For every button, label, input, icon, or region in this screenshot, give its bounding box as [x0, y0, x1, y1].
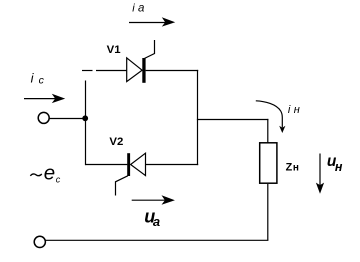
- wire V2 anode to right bus: [146, 164, 199, 166]
- thyristor V2: [116, 153, 146, 195]
- wire output branch down to load: [267, 119, 269, 143]
- svg-text:н: н: [335, 160, 343, 174]
- junction node: [82, 115, 88, 121]
- wire V1 anode: [96, 70, 127, 72]
- terminal input top: [38, 112, 49, 123]
- svg-text:c: c: [39, 74, 45, 86]
- wire V1 cathode to right bus: [146, 70, 199, 72]
- svg-text:i: i: [288, 104, 291, 116]
- wire output branch horizontal: [197, 119, 269, 121]
- current arrow ia: [129, 17, 175, 26]
- wire load bottom: [267, 184, 269, 240]
- voltage arrow uн: [316, 154, 324, 194]
- label ec source tilde: [30, 174, 42, 176]
- voltage arrow ua: [132, 195, 175, 204]
- wire right bus: [197, 70, 199, 165]
- svg-text:Z: Z: [286, 161, 293, 173]
- svg-text:н: н: [294, 104, 300, 116]
- thyristor V1: [127, 40, 155, 83]
- wire V1 anode stub: [82, 70, 93, 72]
- svg-text:a: a: [153, 214, 160, 229]
- current arrow ic: [24, 94, 65, 103]
- load Zн: [260, 143, 277, 183]
- svg-text:c: c: [56, 175, 61, 185]
- svg-text:V2: V2: [109, 136, 123, 148]
- svg-text:a: a: [138, 3, 144, 15]
- wire left bus: [85, 81, 87, 166]
- svg-text:i: i: [132, 3, 135, 15]
- current arrow iн curved: [256, 101, 286, 133]
- terminal input bottom: [34, 236, 45, 247]
- wire bottom return: [46, 239, 269, 241]
- wire V2 cathode side left: [85, 164, 127, 166]
- wire input to junction: [50, 118, 86, 120]
- svg-text:н: н: [293, 162, 299, 173]
- svg-text:i: i: [31, 70, 35, 85]
- svg-text:e: e: [44, 161, 55, 184]
- svg-text:V1: V1: [107, 44, 122, 56]
